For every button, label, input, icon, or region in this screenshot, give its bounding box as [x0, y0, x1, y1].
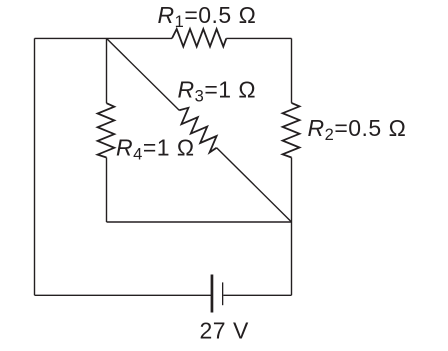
- wire: [106, 38, 108, 103]
- resistor R1: [172, 29, 226, 47]
- resistor R2: [283, 103, 300, 158]
- wire: [226, 37, 291, 39]
- svg-text:R2=0.5 Ω: R2=0.5 Ω: [308, 115, 407, 144]
- wire: [217, 148, 292, 222]
- wire: [291, 158, 293, 296]
- wire: [107, 38, 180, 110]
- wire: [35, 294, 212, 296]
- resistor R3: [179, 108, 216, 153]
- wire: [35, 37, 173, 39]
- wire: [107, 221, 292, 223]
- resistor R4: [98, 103, 115, 157]
- svg-text:27 V: 27 V: [200, 318, 249, 344]
- battery 27 V: [211, 275, 224, 313]
- wire: [291, 38, 293, 103]
- svg-text:R1=0.5 Ω: R1=0.5 Ω: [158, 2, 257, 31]
- svg-text:R3=1 Ω: R3=1 Ω: [178, 77, 257, 106]
- svg-text:R4=1 Ω: R4=1 Ω: [116, 135, 195, 164]
- wire: [106, 158, 108, 223]
- wire: [223, 294, 291, 296]
- wire: [34, 38, 36, 295]
